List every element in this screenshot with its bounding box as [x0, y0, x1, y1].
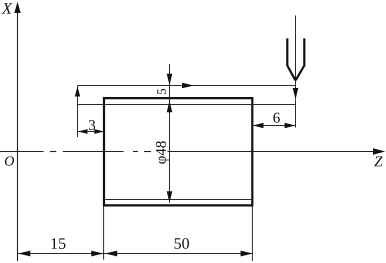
bottom dimension line — [18, 253, 253, 255]
workpiece bottom edge — [104, 204, 252, 206]
value 50 — [175, 238, 189, 249]
tool extension line to 6-dim — [295, 100, 297, 128]
dim 3 right arrow — [94, 129, 104, 134]
dim 15 left arrow — [18, 251, 30, 257]
value 5 — [157, 89, 166, 94]
X axis line — [17, 10, 19, 261]
workpiece top edge — [104, 97, 252, 99]
value 6 — [273, 113, 279, 123]
tool down arrow — [293, 88, 299, 100]
dim 6 line — [252, 125, 295, 127]
dimension vertical line for 5 and phi48 — [169, 64, 171, 203]
dim 6 left arrow — [253, 123, 264, 128]
cutting tool body — [287, 38, 304, 80]
value 3 — [89, 120, 95, 130]
tool path up arrow — [75, 86, 80, 96]
workpiece right edge — [251, 97, 253, 207]
dim 3 left arrow — [78, 129, 88, 134]
dim phi48 up arrow — [167, 101, 173, 112]
tool path left vertical line — [77, 86, 79, 138]
tool centerline — [295, 16, 297, 100]
dim 3 line — [78, 131, 105, 133]
machined surface bottom thin line — [104, 199, 252, 201]
label Z — [374, 156, 382, 166]
extension line below left edge — [103, 207, 105, 260]
tool path top line — [78, 85, 296, 87]
label O — [5, 156, 14, 165]
X axis arrowhead — [14, 2, 20, 13]
tool path right arrow — [182, 83, 194, 89]
value phi48 — [156, 141, 169, 164]
dim phi48 down arrow — [167, 191, 173, 202]
workpiece blank outline (thick rectangle) — [104, 97, 252, 207]
dim 5 down arrow — [167, 74, 173, 85]
dim 50 right arrow — [241, 251, 253, 257]
workpiece left edge — [103, 97, 105, 207]
extension line below right edge — [251, 207, 253, 262]
machined surface top thin line — [78, 104, 296, 106]
dim 15 right arrow — [91, 251, 103, 257]
Z axis arrowhead — [373, 148, 385, 154]
value 15 — [52, 238, 66, 249]
dim 50 left arrow — [105, 251, 117, 257]
dim 6 right arrow — [285, 123, 296, 128]
white gap for phi48 text on centerline — [152, 139, 168, 168]
Z axis centerline dash-dot — [0, 151, 380, 153]
label X — [2, 3, 13, 13]
